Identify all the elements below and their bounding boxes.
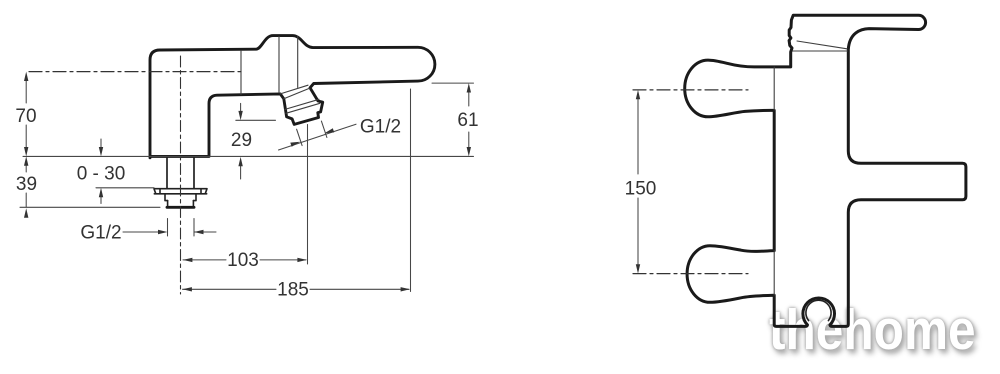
extension line y188 bbox=[96, 187, 154, 189]
dimension 70 bbox=[25, 75, 27, 152]
tailpiece nut step2 bbox=[168, 201, 194, 207]
faucet outline left view bbox=[150, 36, 435, 158]
svg-text:0 - 30: 0 - 30 bbox=[77, 164, 126, 185]
dimension 150 bbox=[637, 94, 639, 269]
svg-text:61: 61 bbox=[457, 110, 478, 131]
fitting collar top seam bbox=[284, 88, 310, 99]
body-arm joint seam bbox=[240, 51, 242, 95]
bulb seam bottom bbox=[773, 251, 775, 296]
svg-text:70: 70 bbox=[15, 106, 36, 127]
svg-text:150: 150 bbox=[625, 179, 657, 200]
dimension G1/2 lower bbox=[123, 219, 216, 237]
dimension 61 bbox=[432, 83, 474, 152]
tailpiece flange bbox=[154, 189, 207, 194]
svg-text:185: 185 bbox=[277, 280, 309, 301]
centerline top union bbox=[633, 89, 748, 91]
tailpiece bottom end bbox=[167, 206, 194, 209]
svg-text:G1/2: G1/2 bbox=[80, 223, 121, 244]
faucet outline right view bbox=[685, 15, 966, 326]
vertical centerline tailpiece (dashed) bbox=[180, 56, 182, 294]
extension line y207 bbox=[20, 206, 160, 208]
hose outlet inner circle bbox=[806, 300, 831, 320]
deck line bbox=[23, 155, 474, 157]
fitting collar facet lines bbox=[285, 99, 319, 109]
dome seam right bbox=[297, 36, 299, 87]
dimension 39 bbox=[25, 160, 27, 207]
dimension G1/2 right (diagonal) bbox=[279, 121, 357, 150]
dimension 185 bbox=[183, 288, 410, 290]
extension line x410 bbox=[410, 89, 412, 292]
dome seam left bbox=[278, 37, 280, 93]
horizontal centerline (dash-dot) bbox=[29, 71, 241, 73]
fitting neck seam bbox=[280, 85, 308, 94]
svg-text:39: 39 bbox=[16, 174, 37, 195]
svg-text:G1/2: G1/2 bbox=[360, 117, 401, 138]
tailpiece shank bbox=[166, 158, 168, 189]
svg-text:29: 29 bbox=[231, 130, 252, 151]
body top face seam bbox=[793, 50, 848, 52]
tailpiece nut step1 bbox=[165, 194, 196, 201]
handle seam diagonal bbox=[797, 41, 847, 49]
dimension 103 bbox=[183, 259, 306, 261]
svg-text:103: 103 bbox=[227, 250, 259, 271]
dimension 29 bbox=[236, 103, 276, 179]
extension line x307 bbox=[307, 125, 309, 265]
centerline bottom union bbox=[633, 273, 748, 275]
watermark thehome bbox=[769, 297, 976, 363]
bulb seam top bbox=[773, 67, 775, 110]
dimension 0-30 bbox=[100, 139, 102, 204]
